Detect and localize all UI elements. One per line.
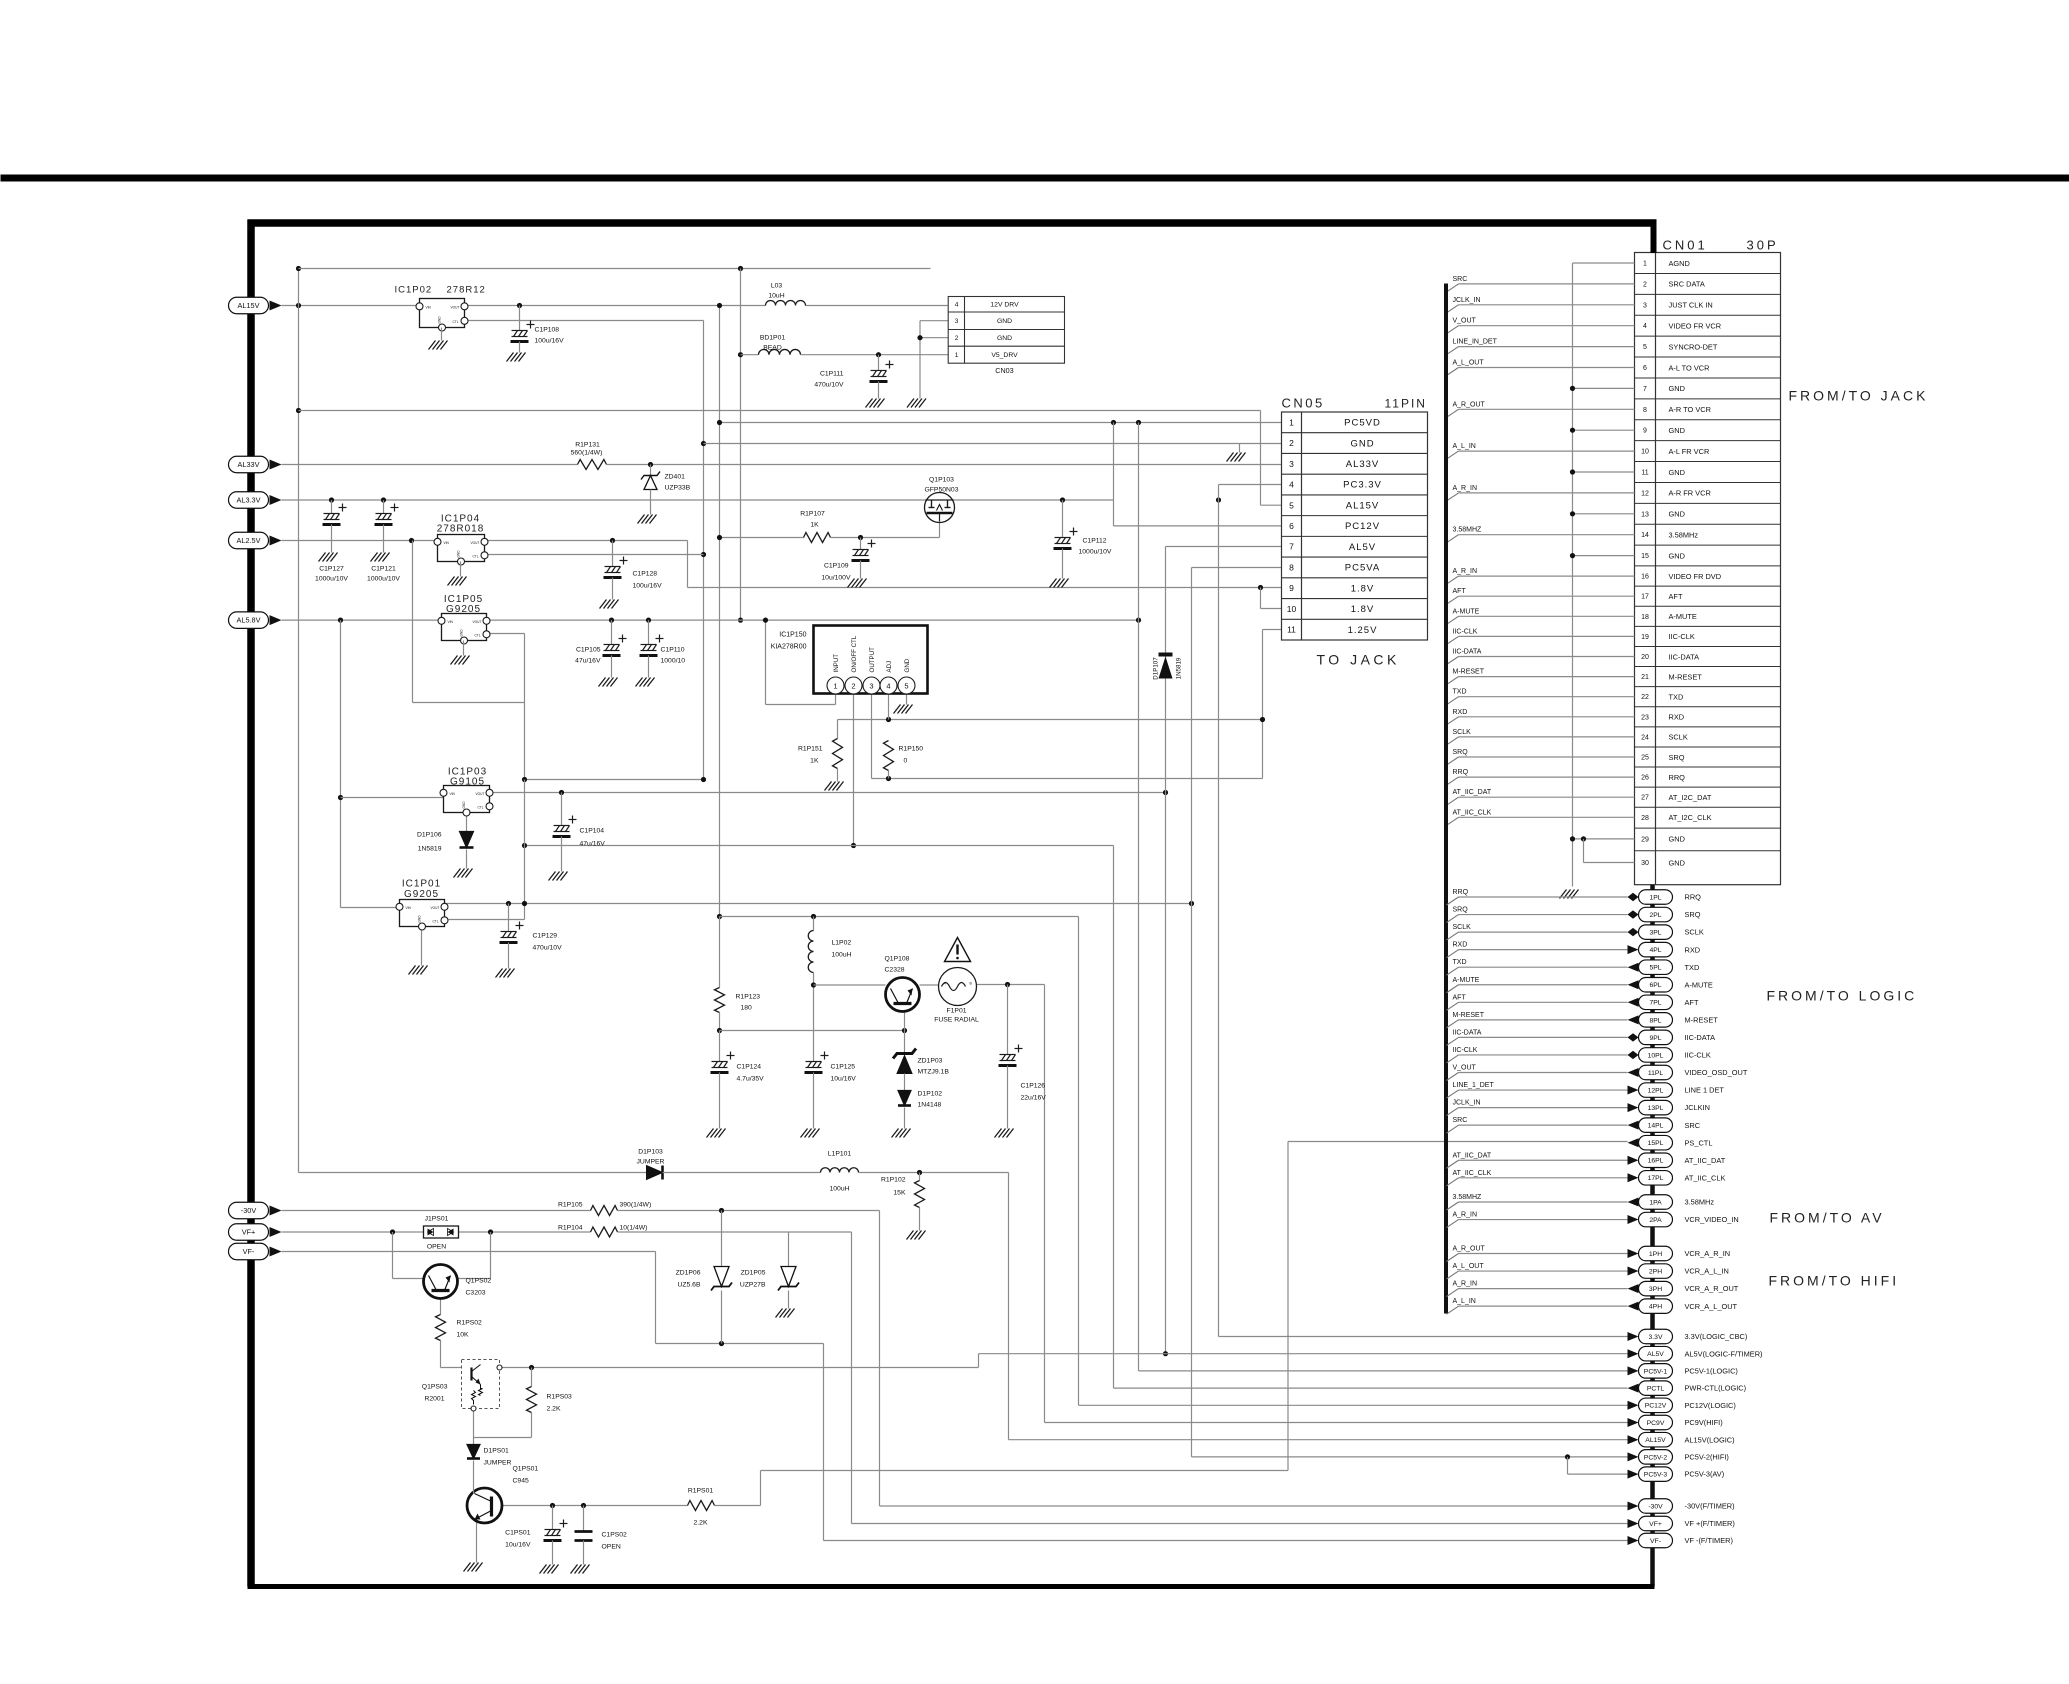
svg-text:4: 4 — [1643, 323, 1647, 330]
svg-text:R1P150: R1P150 — [899, 746, 924, 753]
svg-text:V_OUT: V_OUT — [1453, 318, 1477, 325]
svg-text:A-R TO VCR: A-R TO VCR — [1669, 405, 1711, 414]
svg-text:3PH: 3PH — [1649, 1286, 1662, 1293]
svg-text:IC1P02: IC1P02 — [395, 285, 433, 296]
svg-text:A_R_IN: A_R_IN — [1453, 1281, 1478, 1288]
svg-text:FROM/TO AV: FROM/TO AV — [1770, 1210, 1885, 1226]
svg-text:IIC-CLK: IIC-CLK — [1669, 632, 1695, 641]
svg-text:OUTPUT: OUTPUT — [869, 647, 876, 673]
svg-text:4: 4 — [886, 682, 890, 691]
svg-text:100u/16V: 100u/16V — [535, 338, 565, 345]
svg-text:-30V: -30V — [241, 1206, 257, 1215]
svg-text:0: 0 — [904, 758, 908, 765]
svg-text:16PL: 16PL — [1648, 1158, 1664, 1165]
svg-text:SRQ: SRQ — [1685, 910, 1701, 919]
svg-text:16: 16 — [1641, 574, 1649, 581]
svg-text:PWR-CTL(LOGIC): PWR-CTL(LOGIC) — [1685, 1384, 1747, 1393]
svg-text:A_L_IN: A_L_IN — [1453, 443, 1476, 450]
svg-text:AL2.5V: AL2.5V — [237, 536, 261, 545]
svg-text:1N4148: 1N4148 — [918, 1102, 942, 1109]
svg-text:VIN: VIN — [450, 792, 456, 796]
svg-text:VCR_A_R_IN: VCR_A_R_IN — [1685, 1249, 1731, 1258]
svg-text:A-MUTE: A-MUTE — [1685, 980, 1713, 989]
svg-text:UZ5.6B: UZ5.6B — [677, 1282, 701, 1289]
svg-text:PC5VD: PC5VD — [1344, 418, 1381, 429]
svg-text:29: 29 — [1641, 836, 1649, 843]
svg-text:1.25V: 1.25V — [1348, 625, 1378, 636]
svg-text:17: 17 — [1641, 594, 1649, 601]
svg-text:Q1PS03: Q1PS03 — [422, 1384, 448, 1391]
svg-text:L1P101: L1P101 — [828, 1151, 852, 1158]
svg-text:JCLK_IN: JCLK_IN — [1453, 297, 1481, 304]
svg-text:3.58MHz: 3.58MHz — [1685, 1198, 1715, 1207]
svg-text:A_R_OUT: A_R_OUT — [1453, 1246, 1486, 1253]
svg-text:IIC-DATA: IIC-DATA — [1685, 1033, 1716, 1042]
svg-text:12V DRV: 12V DRV — [990, 302, 1019, 309]
svg-text:V5_DRV: V5_DRV — [991, 352, 1018, 359]
svg-text:GND: GND — [997, 335, 1012, 342]
svg-text:RXD: RXD — [1453, 942, 1468, 949]
svg-text:VCR_VIDEO_IN: VCR_VIDEO_IN — [1685, 1215, 1739, 1224]
svg-text:SCLK: SCLK — [1669, 733, 1688, 742]
svg-text:D1P106: D1P106 — [417, 832, 442, 839]
svg-text:CTL: CTL — [478, 805, 484, 809]
svg-text:BD1P01: BD1P01 — [760, 335, 786, 342]
svg-text:G9205: G9205 — [404, 889, 439, 900]
svg-text:V_OUT: V_OUT — [1453, 1065, 1477, 1072]
svg-text:PC12V: PC12V — [1345, 521, 1380, 532]
svg-text:2: 2 — [851, 682, 855, 691]
svg-text:D1P102: D1P102 — [918, 1091, 943, 1098]
svg-text:5: 5 — [1289, 500, 1294, 510]
svg-text:VF+: VF+ — [1649, 1521, 1662, 1528]
svg-text:8PL: 8PL — [1649, 1017, 1661, 1024]
svg-text:13: 13 — [1641, 511, 1649, 518]
svg-text:9: 9 — [1643, 428, 1647, 435]
svg-text:1PL: 1PL — [1649, 894, 1661, 901]
svg-text:FUSE RADIAL: FUSE RADIAL — [934, 1017, 979, 1024]
svg-text:20: 20 — [1641, 654, 1649, 661]
svg-text:L1P02: L1P02 — [832, 940, 852, 947]
svg-text:11PIN: 11PIN — [1385, 397, 1427, 411]
svg-text:1: 1 — [1289, 417, 1294, 427]
svg-text:CN03: CN03 — [995, 366, 1013, 375]
svg-text:C1P125: C1P125 — [831, 1064, 856, 1071]
svg-text:AL33V: AL33V — [1346, 459, 1380, 470]
svg-text:17PL: 17PL — [1648, 1175, 1664, 1182]
svg-text:R1P105: R1P105 — [558, 1202, 583, 1209]
svg-text:AFT: AFT — [1453, 994, 1467, 1001]
svg-text:1000/10: 1000/10 — [661, 658, 686, 665]
svg-text:5: 5 — [904, 682, 908, 691]
svg-text:R1PS01: R1PS01 — [688, 1488, 714, 1495]
svg-text:C1P121: C1P121 — [371, 566, 396, 573]
svg-text:IC1P01: IC1P01 — [402, 879, 441, 890]
svg-text:AL15V: AL15V — [1346, 500, 1380, 511]
svg-text:CTL: CTL — [475, 633, 481, 637]
svg-text:14: 14 — [1641, 532, 1649, 539]
svg-text:MTZJ9.1B: MTZJ9.1B — [918, 1069, 950, 1076]
svg-text:AT_I2C_CLK: AT_I2C_CLK — [1669, 813, 1712, 822]
svg-text:UZP27B: UZP27B — [740, 1282, 766, 1289]
svg-text:10: 10 — [1641, 449, 1649, 456]
svg-text:TXD: TXD — [1669, 693, 1684, 702]
svg-text:AT_IIC_DAT: AT_IIC_DAT — [1453, 1152, 1492, 1159]
svg-text:3.3V(LOGIC_CBC): 3.3V(LOGIC_CBC) — [1685, 1332, 1748, 1341]
svg-text:2: 2 — [1289, 438, 1294, 448]
svg-text:Q1PS02: Q1PS02 — [466, 1278, 492, 1285]
svg-text:VOUT: VOUT — [451, 306, 460, 310]
svg-text:GND: GND — [1669, 835, 1685, 844]
svg-text:1000u/10V: 1000u/10V — [315, 576, 348, 583]
svg-text:1.8V: 1.8V — [1351, 583, 1375, 594]
svg-text:PC5V-3: PC5V-3 — [1644, 1472, 1668, 1479]
svg-text:CN01: CN01 — [1663, 238, 1708, 253]
svg-text:26: 26 — [1641, 775, 1649, 782]
svg-text:GND: GND — [904, 658, 911, 672]
svg-text:PC5V-2: PC5V-2 — [1644, 1454, 1668, 1461]
svg-text:C1P124: C1P124 — [737, 1064, 762, 1071]
svg-text:IC1P150: IC1P150 — [779, 632, 806, 639]
svg-text:3: 3 — [869, 682, 873, 691]
svg-text:C3203: C3203 — [466, 1290, 486, 1297]
svg-text:R1P107: R1P107 — [800, 511, 825, 518]
svg-text:C1P126: C1P126 — [1021, 1083, 1046, 1090]
svg-text:ZD1P05: ZD1P05 — [741, 1270, 766, 1277]
svg-text:SRC: SRC — [1453, 1117, 1468, 1124]
svg-text:C1P110: C1P110 — [661, 647, 685, 654]
svg-text:IIC-DATA: IIC-DATA — [1669, 652, 1700, 661]
svg-text:10u/16V: 10u/16V — [831, 1076, 857, 1083]
svg-text:VIN: VIN — [444, 541, 450, 545]
svg-text:3.58MHZ: 3.58MHZ — [1453, 1194, 1483, 1201]
svg-text:C2328: C2328 — [885, 967, 905, 974]
svg-text:Q1PS01: Q1PS01 — [513, 1466, 539, 1473]
svg-text:VIN: VIN — [406, 906, 412, 910]
svg-text:VIDEO FR VCR: VIDEO FR VCR — [1669, 322, 1722, 331]
svg-text:VF -(F/TIMER): VF -(F/TIMER) — [1685, 1536, 1733, 1545]
svg-text:AT_IIC_CLK: AT_IIC_CLK — [1685, 1173, 1726, 1182]
svg-text:R1P151: R1P151 — [798, 746, 823, 753]
svg-text:FROM/TO HIFI: FROM/TO HIFI — [1769, 1273, 1900, 1289]
svg-text:PC5V-1: PC5V-1 — [1644, 1368, 1668, 1375]
svg-text:OPEN: OPEN — [602, 1544, 621, 1551]
svg-text:M-RESET: M-RESET — [1453, 669, 1485, 676]
svg-text:LINE 1 DET: LINE 1 DET — [1685, 1086, 1725, 1095]
svg-text:23: 23 — [1641, 714, 1649, 721]
svg-text:R1P131: R1P131 — [575, 442, 600, 449]
svg-text:AT_IIC_DAT: AT_IIC_DAT — [1685, 1156, 1726, 1165]
svg-text:GND: GND — [1669, 384, 1685, 393]
svg-text:J1PS01: J1PS01 — [425, 1216, 449, 1223]
svg-text:19: 19 — [1641, 634, 1649, 641]
svg-text:AFT: AFT — [1669, 592, 1683, 601]
svg-text:4PH: 4PH — [1649, 1304, 1662, 1311]
svg-text:JUMPER: JUMPER — [637, 1159, 665, 1166]
svg-text:6: 6 — [1289, 521, 1294, 531]
svg-text:-30V: -30V — [1648, 1503, 1663, 1510]
svg-text:AL15V: AL15V — [1645, 1437, 1666, 1444]
svg-text:CTL: CTL — [473, 554, 479, 558]
svg-text:SCLK: SCLK — [1453, 924, 1472, 931]
svg-text:11: 11 — [1641, 470, 1648, 477]
svg-text:A_L_OUT: A_L_OUT — [1453, 1263, 1485, 1270]
svg-text:9: 9 — [1289, 583, 1294, 593]
svg-text:100uH: 100uH — [829, 1186, 849, 1193]
svg-text:100u/16V: 100u/16V — [633, 583, 663, 590]
svg-text:SRC DATA: SRC DATA — [1669, 280, 1705, 289]
svg-text:RRQ: RRQ — [1453, 889, 1469, 896]
svg-text:3.3V: 3.3V — [1649, 1334, 1663, 1341]
svg-text:3: 3 — [1289, 459, 1294, 469]
svg-text:22: 22 — [1641, 694, 1649, 701]
svg-text:15K: 15K — [893, 1190, 906, 1197]
svg-text:278R018: 278R018 — [437, 524, 485, 535]
svg-text:7PL: 7PL — [1649, 1000, 1661, 1007]
svg-text:ZD1P03: ZD1P03 — [918, 1058, 943, 1065]
svg-text:C1P105: C1P105 — [576, 647, 601, 654]
svg-text:11: 11 — [1287, 625, 1296, 635]
svg-text:A-MUTE: A-MUTE — [1453, 977, 1480, 984]
svg-text:R1PS03: R1PS03 — [547, 1394, 573, 1401]
svg-text:A-MUTE: A-MUTE — [1453, 608, 1480, 615]
svg-text:22u/16V: 22u/16V — [1021, 1095, 1047, 1102]
svg-text:5PL: 5PL — [1649, 965, 1661, 972]
svg-text:PC5V-3(AV): PC5V-3(AV) — [1685, 1470, 1725, 1479]
svg-text:AT_I2C_DAT: AT_I2C_DAT — [1669, 793, 1712, 802]
svg-text:VIN: VIN — [426, 306, 432, 310]
svg-text:KIA278R00: KIA278R00 — [771, 644, 807, 651]
svg-text:AFT: AFT — [1685, 998, 1699, 1007]
svg-text:JCLKIN: JCLKIN — [1685, 1103, 1710, 1112]
svg-text:10uH: 10uH — [768, 293, 784, 300]
svg-text:LINE_1_DET: LINE_1_DET — [1453, 1082, 1495, 1089]
svg-text:3: 3 — [955, 318, 959, 325]
svg-text:30P: 30P — [1747, 238, 1779, 253]
svg-text:SRC: SRC — [1453, 276, 1468, 283]
svg-text:470u/10V: 470u/10V — [533, 945, 563, 952]
svg-text:VF+: VF+ — [242, 1228, 256, 1237]
svg-text:1: 1 — [955, 352, 959, 359]
svg-text:27: 27 — [1641, 795, 1649, 802]
svg-text:A_L_IN: A_L_IN — [1453, 1298, 1476, 1305]
svg-text:RRQ: RRQ — [1669, 773, 1686, 782]
svg-text:A-L TO VCR: A-L TO VCR — [1669, 363, 1710, 372]
svg-text:VCR_A_L_IN: VCR_A_L_IN — [1685, 1267, 1729, 1276]
svg-text:AT_IIC_DAT: AT_IIC_DAT — [1453, 789, 1492, 796]
svg-text:3PL: 3PL — [1649, 930, 1661, 937]
svg-text:VOUT: VOUT — [471, 541, 480, 545]
svg-text:47u/16V: 47u/16V — [580, 841, 606, 848]
svg-text:AL15V: AL15V — [238, 301, 260, 310]
svg-text:390(1/4W): 390(1/4W) — [620, 1202, 652, 1209]
svg-text:PC5VA: PC5VA — [1345, 563, 1380, 574]
svg-text:10PL: 10PL — [1648, 1052, 1664, 1059]
svg-text:GND: GND — [1669, 468, 1685, 477]
svg-text:M-RESET: M-RESET — [1685, 1015, 1719, 1024]
svg-text:VF-: VF- — [1650, 1538, 1661, 1545]
svg-text:LINE_IN_DET: LINE_IN_DET — [1453, 339, 1498, 346]
svg-text:11PL: 11PL — [1648, 1070, 1664, 1077]
svg-text:TXD: TXD — [1453, 959, 1467, 966]
svg-text:VIDEO_OSD_OUT: VIDEO_OSD_OUT — [1685, 1068, 1748, 1077]
svg-text:Q1P108: Q1P108 — [885, 956, 910, 963]
svg-text:R1P123: R1P123 — [736, 994, 761, 1001]
svg-text:A-L FR VCR: A-L FR VCR — [1669, 447, 1710, 456]
svg-text:R1PS02: R1PS02 — [457, 1320, 483, 1327]
svg-text:AL33V: AL33V — [238, 460, 260, 469]
svg-text:14PL: 14PL — [1648, 1123, 1664, 1130]
svg-text:C1P112: C1P112 — [1083, 538, 1107, 545]
svg-text:278R12: 278R12 — [447, 285, 486, 296]
svg-text:4.7u/35V: 4.7u/35V — [737, 1076, 765, 1083]
svg-text:25: 25 — [1641, 755, 1649, 762]
svg-text:CTL: CTL — [433, 919, 439, 923]
svg-text:2PA: 2PA — [1649, 1217, 1662, 1224]
svg-text:2.2K: 2.2K — [694, 1520, 708, 1527]
svg-text:PC12V(LOGIC): PC12V(LOGIC) — [1685, 1401, 1736, 1410]
svg-text:15: 15 — [1641, 553, 1649, 560]
svg-text:6: 6 — [1643, 365, 1647, 372]
svg-text:C1P128: C1P128 — [633, 571, 658, 578]
svg-text:JUST CLK IN: JUST CLK IN — [1669, 301, 1713, 310]
svg-text:SCLK: SCLK — [1685, 928, 1704, 937]
svg-text:6PL: 6PL — [1649, 982, 1661, 989]
svg-text:1PH: 1PH — [1649, 1251, 1662, 1258]
svg-text:GND: GND — [1669, 426, 1685, 435]
svg-text:GND: GND — [438, 316, 442, 324]
svg-text:AFT: AFT — [1453, 588, 1467, 595]
svg-text:GND: GND — [460, 629, 464, 637]
svg-text:VCR_A_R_OUT: VCR_A_R_OUT — [1685, 1284, 1739, 1293]
svg-text:M-RESET: M-RESET — [1669, 672, 1703, 681]
svg-text:3.58MHz: 3.58MHz — [1669, 531, 1699, 540]
svg-text:12PL: 12PL — [1648, 1087, 1664, 1094]
svg-text:GFP50N03: GFP50N03 — [924, 487, 958, 494]
svg-text:AL5V(LOGIC-F/TIMER): AL5V(LOGIC-F/TIMER) — [1685, 1349, 1763, 1358]
svg-text:3.58MHZ: 3.58MHZ — [1453, 527, 1483, 534]
svg-text:SYNCRO-DET: SYNCRO-DET — [1669, 342, 1718, 351]
svg-text:1.8V: 1.8V — [1351, 604, 1375, 615]
svg-text:1000u/10V: 1000u/10V — [367, 576, 400, 583]
svg-text:GND: GND — [1669, 510, 1685, 519]
svg-text:VF-: VF- — [243, 1247, 255, 1256]
svg-text:VOUT: VOUT — [431, 906, 440, 910]
svg-text:RXD: RXD — [1453, 709, 1468, 716]
svg-text:A-MUTE: A-MUTE — [1669, 612, 1697, 621]
svg-text:VCR_A_L_OUT: VCR_A_L_OUT — [1685, 1302, 1738, 1311]
svg-text:28: 28 — [1641, 815, 1649, 822]
svg-text:10u/100V: 10u/100V — [821, 575, 851, 582]
svg-text:C1P111: C1P111 — [820, 371, 844, 378]
svg-text:CTL: CTL — [453, 320, 459, 324]
svg-text:4: 4 — [1289, 480, 1294, 490]
svg-text:C1PS02: C1PS02 — [602, 1532, 628, 1539]
svg-text:GND: GND — [1669, 858, 1685, 867]
svg-text:15PL: 15PL — [1648, 1140, 1664, 1147]
svg-text:A_R_IN: A_R_IN — [1453, 1212, 1478, 1219]
svg-text:JUMPER: JUMPER — [484, 1460, 512, 1467]
svg-text:SRQ: SRQ — [1453, 749, 1469, 756]
svg-text:2PL: 2PL — [1649, 912, 1661, 919]
svg-text:30: 30 — [1641, 860, 1649, 867]
svg-text:3: 3 — [1643, 302, 1647, 309]
svg-text:UZP33B: UZP33B — [665, 485, 691, 492]
svg-text:9PL: 9PL — [1649, 1035, 1661, 1042]
svg-text:C1P129: C1P129 — [533, 933, 558, 940]
svg-text:13PL: 13PL — [1648, 1105, 1664, 1112]
svg-text:560(1/4W): 560(1/4W) — [571, 450, 603, 457]
svg-text:C1PS01: C1PS01 — [505, 1530, 531, 1537]
svg-text:7: 7 — [1289, 542, 1294, 552]
svg-text:RXD: RXD — [1685, 945, 1701, 954]
svg-text:AL5.8V: AL5.8V — [237, 616, 261, 625]
svg-text:470u/10V: 470u/10V — [814, 382, 844, 389]
svg-text:10K: 10K — [457, 1332, 470, 1339]
svg-text:D1PS01: D1PS01 — [484, 1448, 510, 1455]
svg-text:VOUT: VOUT — [473, 620, 482, 624]
svg-text:2: 2 — [955, 335, 959, 342]
svg-text:1K: 1K — [810, 522, 819, 529]
svg-text:10(1/4W): 10(1/4W) — [620, 1225, 648, 1232]
svg-text:L03: L03 — [771, 283, 783, 290]
svg-text:1: 1 — [833, 682, 837, 691]
svg-text:1K: 1K — [810, 758, 819, 765]
svg-text:A-R FR VCR: A-R FR VCR — [1669, 489, 1711, 498]
svg-text:RXD: RXD — [1669, 713, 1685, 722]
svg-text:47u/16V: 47u/16V — [575, 658, 601, 665]
svg-text:AT_IIC_CLK: AT_IIC_CLK — [1453, 1170, 1492, 1177]
svg-text:AGND: AGND — [1669, 259, 1690, 268]
svg-text:18: 18 — [1641, 614, 1649, 621]
svg-text:IIC-CLK: IIC-CLK — [1453, 628, 1478, 635]
svg-text:R1P104: R1P104 — [558, 1225, 583, 1232]
svg-text:12: 12 — [1641, 490, 1649, 497]
svg-text:8: 8 — [1643, 407, 1647, 414]
svg-text:PC9V(HIFI): PC9V(HIFI) — [1685, 1418, 1723, 1427]
svg-text:JCLK_IN: JCLK_IN — [1453, 1100, 1481, 1107]
svg-text:R2001: R2001 — [424, 1396, 444, 1403]
svg-text:C1P108: C1P108 — [535, 327, 560, 334]
svg-text:SCLK: SCLK — [1453, 729, 1472, 736]
svg-text:GND: GND — [462, 801, 466, 809]
svg-text:PC5V-1(LOGIC): PC5V-1(LOGIC) — [1685, 1367, 1738, 1376]
svg-text:IIC-CLK: IIC-CLK — [1453, 1047, 1478, 1054]
svg-text:8: 8 — [1289, 562, 1294, 572]
svg-text:Q1P103: Q1P103 — [929, 477, 954, 484]
svg-text:ADJ: ADJ — [886, 661, 893, 673]
svg-text:GND: GND — [1669, 551, 1685, 560]
svg-text:D1P103: D1P103 — [638, 1149, 663, 1156]
svg-text:AL3.3V: AL3.3V — [237, 496, 261, 505]
svg-text:GND: GND — [457, 550, 461, 558]
svg-text:100uH: 100uH — [832, 952, 852, 959]
svg-text:C945: C945 — [513, 1478, 529, 1485]
svg-text:4PL: 4PL — [1649, 947, 1661, 954]
svg-text:21: 21 — [1641, 674, 1649, 681]
svg-text:A_R_IN: A_R_IN — [1453, 485, 1478, 492]
svg-text:1000u/10V: 1000u/10V — [1079, 549, 1112, 556]
svg-text:AL5V: AL5V — [1349, 542, 1376, 553]
svg-text:PS_CTL: PS_CTL — [1685, 1138, 1713, 1147]
svg-text:G9205: G9205 — [446, 604, 481, 615]
svg-text:5: 5 — [1643, 344, 1647, 351]
svg-text:2: 2 — [1643, 281, 1647, 288]
svg-text:SRQ: SRQ — [1453, 907, 1469, 914]
svg-text:TXD: TXD — [1685, 963, 1700, 972]
svg-text:G9105: G9105 — [450, 777, 485, 788]
svg-text:C1P109: C1P109 — [824, 563, 849, 570]
